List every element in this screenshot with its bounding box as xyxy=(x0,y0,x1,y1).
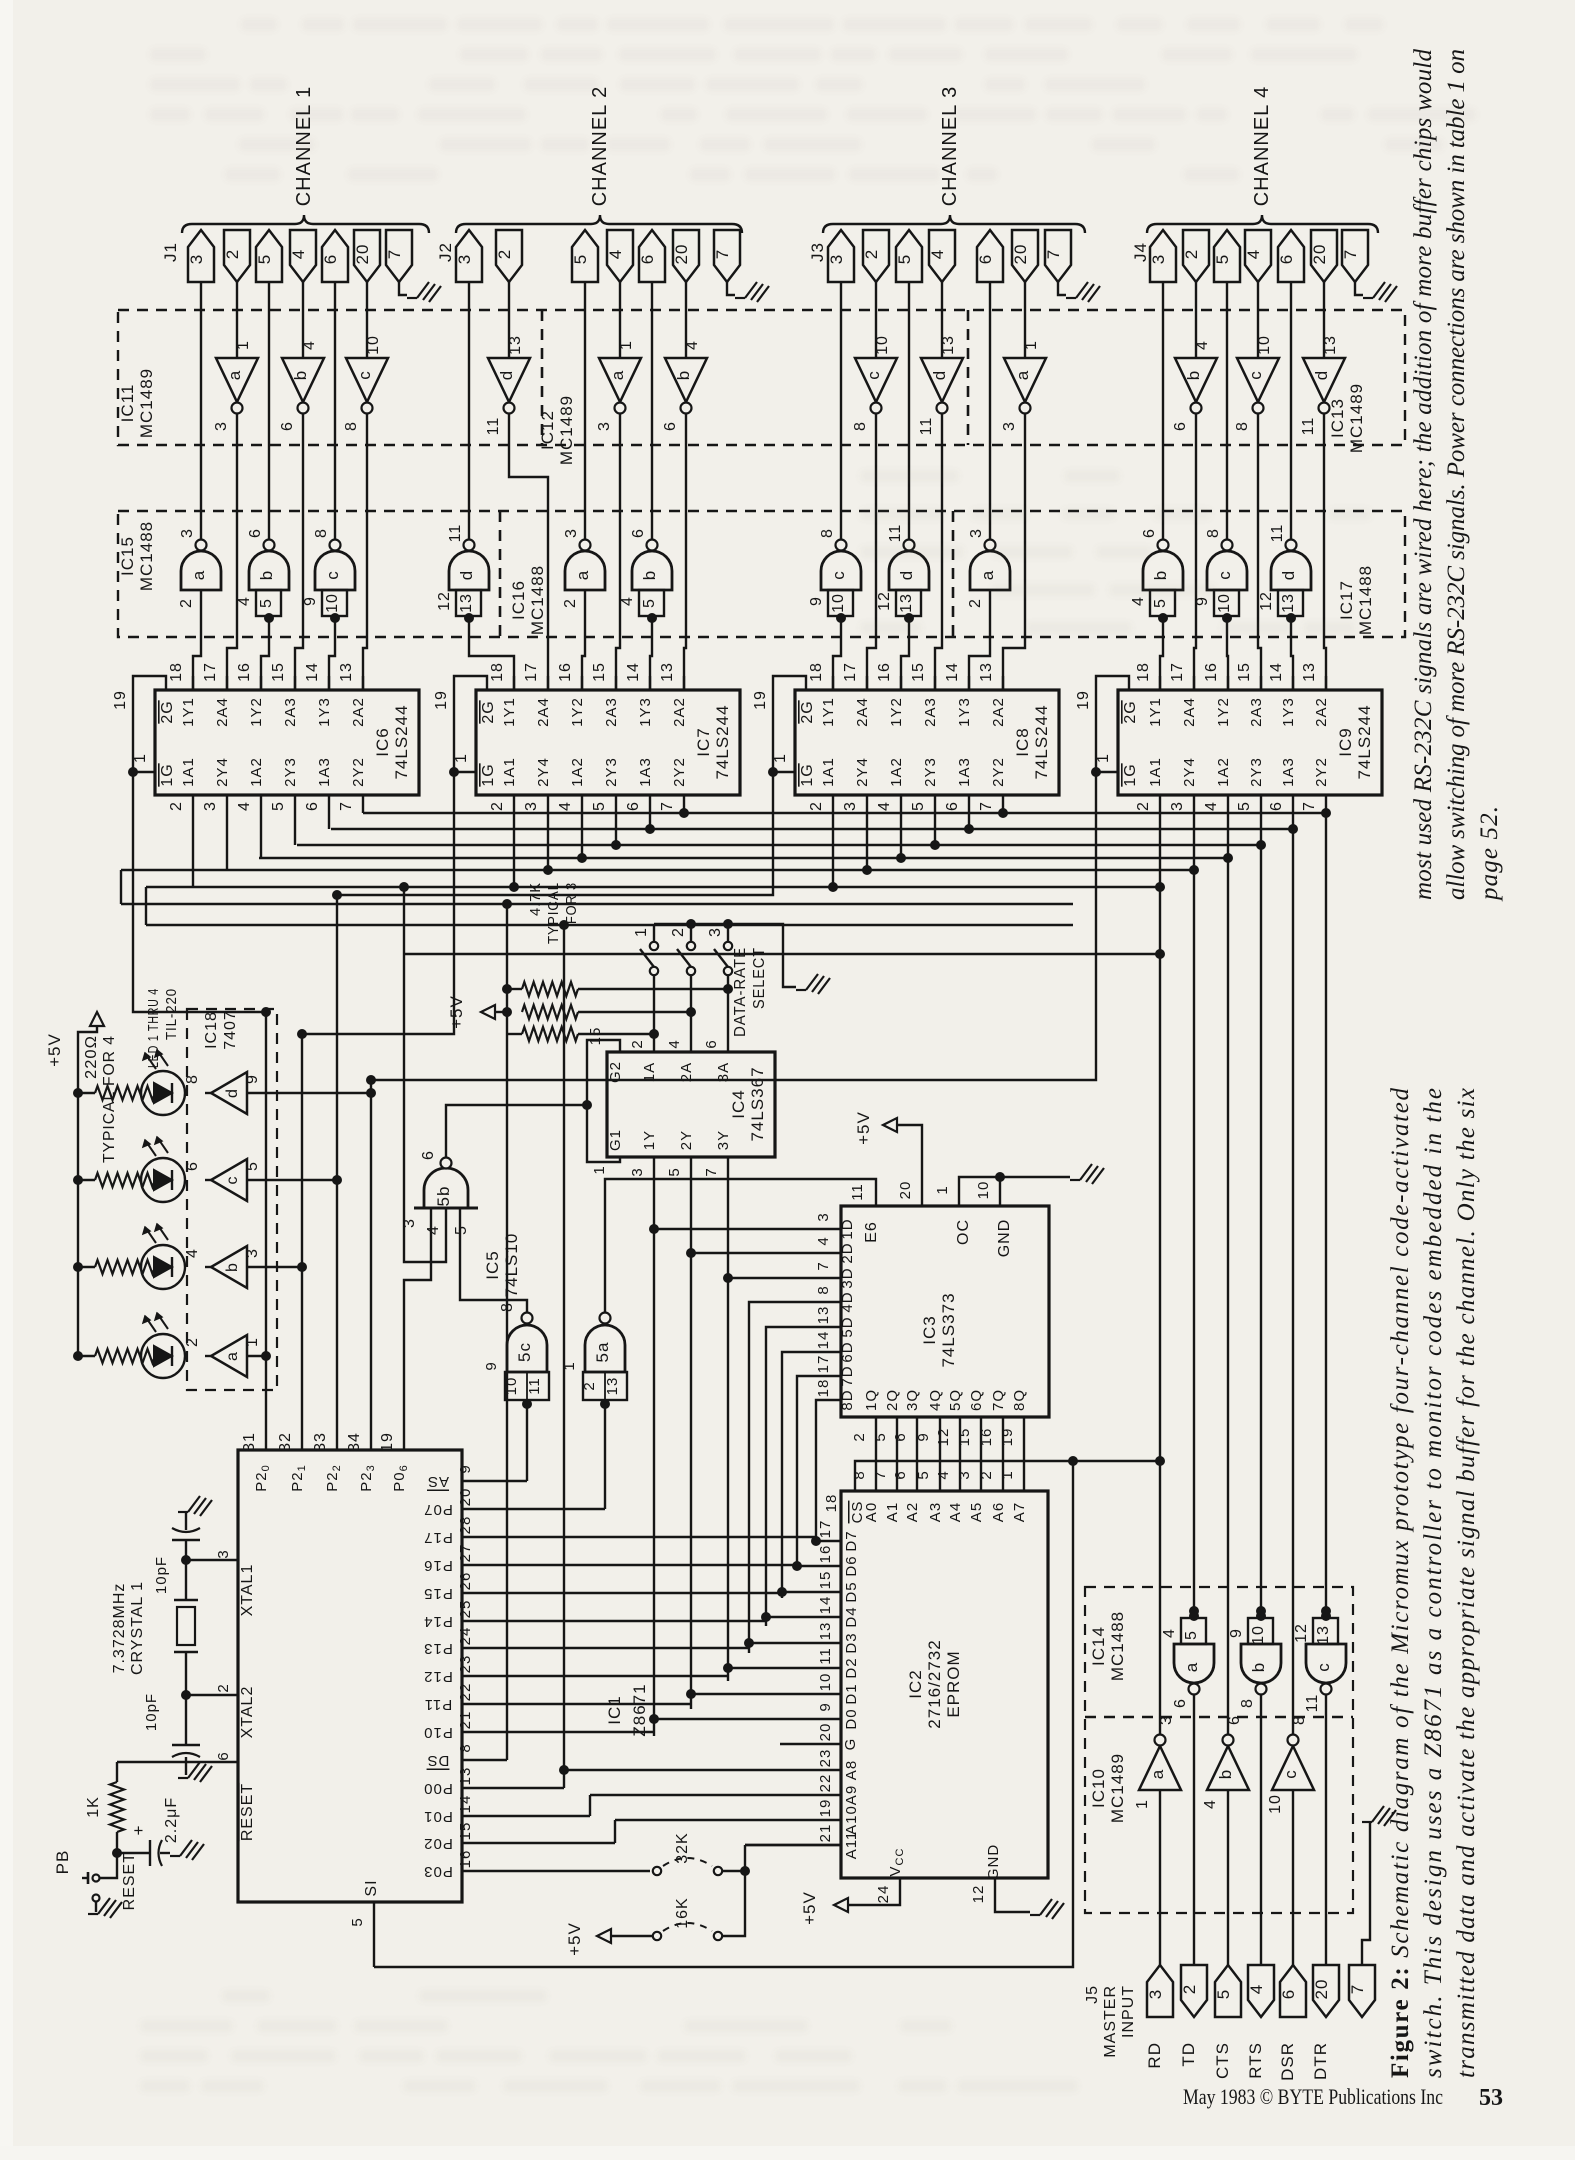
MC1489 receiver b (channel 4) xyxy=(1175,358,1217,402)
svg-text:8Q: 8Q xyxy=(1011,1389,1028,1411)
capacitor 10pF lower xyxy=(185,1695,187,1745)
wire 244 output to master column xyxy=(1227,795,1229,858)
J1 pin 3 xyxy=(188,230,214,282)
svg-text:10: 10 xyxy=(1267,1794,1284,1814)
MC1489 receiver b (channel 1) xyxy=(282,358,324,402)
svg-text:CTS: CTS xyxy=(1213,2042,1232,2079)
svg-text:5: 5 xyxy=(591,801,608,811)
svg-text:5c: 5c xyxy=(515,1342,534,1362)
svg-text:FOR 3: FOR 3 xyxy=(563,882,580,924)
svg-text:12: 12 xyxy=(876,591,893,611)
svg-text:1G: 1G xyxy=(799,763,816,786)
svg-text:1A1: 1A1 xyxy=(501,757,518,787)
svg-text:4: 4 xyxy=(666,1039,683,1048)
wire DS up xyxy=(506,1034,508,1760)
svg-text:MC1489: MC1489 xyxy=(1108,1753,1127,1823)
svg-text:5: 5 xyxy=(1213,254,1232,264)
svg-text:19: 19 xyxy=(752,690,769,710)
svg-text:20: 20 xyxy=(1310,244,1329,265)
ground J1 pin 7 xyxy=(399,282,407,295)
svg-text:a: a xyxy=(1148,1769,1167,1779)
svg-text:11: 11 xyxy=(887,524,904,543)
brace CHANNEL 4 xyxy=(1147,215,1378,233)
svg-text:2G: 2G xyxy=(1122,700,1139,723)
svg-text:32K: 32K xyxy=(674,1832,691,1863)
svg-text:a: a xyxy=(978,570,997,580)
J4 pin 7 xyxy=(1342,230,1368,282)
svg-text:20: 20 xyxy=(672,244,691,265)
svg-text:PB: PB xyxy=(53,1850,72,1875)
resistor 4.7K row3 xyxy=(522,1027,578,1041)
svg-text:11: 11 xyxy=(526,1377,543,1395)
svg-text:IC9: IC9 xyxy=(1336,727,1355,756)
svg-text:4Q: 4Q xyxy=(927,1389,944,1411)
IC8 pin 13 2A2 xyxy=(1002,676,1004,690)
svg-text:19: 19 xyxy=(817,1799,834,1818)
wire 244 output xyxy=(1002,795,1004,813)
svg-text:6: 6 xyxy=(630,528,647,538)
svg-text:+5V: +5V xyxy=(447,995,466,1029)
svg-text:16K: 16K xyxy=(674,1897,691,1928)
svg-text:16: 16 xyxy=(876,662,893,682)
IC3 pin 20 +5V xyxy=(897,1125,922,1206)
svg-text:3Y: 3Y xyxy=(715,1130,732,1150)
svg-text:22: 22 xyxy=(817,1774,834,1793)
svg-text:1Y2: 1Y2 xyxy=(569,697,586,727)
svg-text:19: 19 xyxy=(1075,690,1092,710)
svg-text:19: 19 xyxy=(999,1428,1016,1447)
svg-text:IC4: IC4 xyxy=(729,1089,748,1118)
J5 pin 5 CTS xyxy=(1215,1965,1241,2017)
svg-text:MC1489: MC1489 xyxy=(137,368,156,438)
MC1489 receiver a (channel 1) xyxy=(216,358,258,402)
ground J4 pin 7 xyxy=(1355,282,1363,295)
wire xyxy=(302,282,304,358)
IC3 OC GND to ground xyxy=(959,1177,1070,1206)
svg-text:1A2: 1A2 xyxy=(569,757,586,787)
svg-text:TYPICAL: TYPICAL xyxy=(545,882,562,944)
IC18 7407 buffer b xyxy=(211,1246,247,1288)
svg-text:9: 9 xyxy=(483,1361,500,1370)
MC1488 driver b (channel 2) xyxy=(632,551,672,590)
wire xyxy=(941,282,943,358)
svg-text:3: 3 xyxy=(179,528,196,538)
svg-text:P07: P07 xyxy=(423,1501,453,1518)
svg-text:6: 6 xyxy=(321,254,340,264)
svg-text:3: 3 xyxy=(815,1212,832,1221)
svg-text:5: 5 xyxy=(641,598,658,608)
svg-text:1: 1 xyxy=(132,753,149,763)
svg-text:MC1488: MC1488 xyxy=(137,521,156,591)
IC9 pin 18 1Y1 xyxy=(1159,676,1161,690)
svg-text:TD: TD xyxy=(1179,2042,1198,2067)
wire 244 output xyxy=(581,795,583,858)
bus line DTR xyxy=(146,886,1160,888)
svg-text:25: 25 xyxy=(457,1600,474,1619)
svg-text:20: 20 xyxy=(897,1181,914,1200)
svg-text:12: 12 xyxy=(436,591,453,611)
svg-text:6: 6 xyxy=(1172,421,1189,431)
svg-text:13: 13 xyxy=(338,662,355,682)
svg-text:XTAL1: XTAL1 xyxy=(239,1564,256,1617)
svg-text:7.3728MHz: 7.3728MHz xyxy=(111,1583,128,1674)
svg-text:14: 14 xyxy=(1268,662,1285,682)
svg-text:34: 34 xyxy=(346,1432,363,1452)
svg-text:allow switching of more RS-232: allow switching of more RS-232C signals.… xyxy=(1443,49,1470,900)
svg-text:15: 15 xyxy=(587,1027,604,1046)
svg-text:11: 11 xyxy=(849,1183,866,1201)
svg-text:17: 17 xyxy=(523,662,540,682)
svg-text:9: 9 xyxy=(244,1074,261,1084)
J5 pin 20 DTR xyxy=(1313,1965,1339,2017)
svg-text:13: 13 xyxy=(659,662,676,682)
svg-text:1A3: 1A3 xyxy=(316,757,333,787)
J4 pin 20 xyxy=(1311,230,1337,282)
svg-text:d: d xyxy=(1312,370,1331,380)
svg-text:8: 8 xyxy=(1234,421,1251,431)
svg-text:3A: 3A xyxy=(715,1062,732,1082)
svg-text:page 52.: page 52. xyxy=(1476,806,1503,902)
wire buffer output xyxy=(247,1266,302,1268)
svg-text:4: 4 xyxy=(815,1236,832,1245)
MC1488 driver d (channel 2) xyxy=(449,551,489,590)
svg-text:P13: P13 xyxy=(423,1640,453,1657)
IC6 pin 18 1Y1 xyxy=(192,676,194,690)
svg-text:5a: 5a xyxy=(593,1342,612,1363)
svg-text:2: 2 xyxy=(581,1381,598,1390)
J5 pin 3 RD xyxy=(1147,1965,1173,2017)
svg-text:4: 4 xyxy=(619,596,636,606)
svg-text:1: 1 xyxy=(772,753,789,763)
ground J2 pin 7 xyxy=(727,282,735,295)
svg-text:IC1: IC1 xyxy=(605,1695,624,1724)
IC8 pin 17 2A4 xyxy=(866,676,868,690)
IC7 pin 16 1Y2 xyxy=(581,676,583,690)
LED c TIL-220 xyxy=(141,1158,185,1202)
svg-text:IC5: IC5 xyxy=(483,1250,502,1279)
svg-text:14: 14 xyxy=(457,1795,474,1814)
svg-text:2: 2 xyxy=(629,1039,646,1048)
svg-text:2: 2 xyxy=(808,801,825,811)
svg-text:7: 7 xyxy=(1348,1984,1367,1994)
svg-text:20: 20 xyxy=(1312,1979,1331,2000)
svg-text:2Y4: 2Y4 xyxy=(535,757,552,787)
svg-text:74LS244: 74LS244 xyxy=(1032,704,1051,779)
svg-text:A2: A2 xyxy=(904,1502,921,1522)
svg-text:c: c xyxy=(1215,570,1234,580)
wire 5a to P07 xyxy=(604,1408,606,1509)
svg-text:8: 8 xyxy=(1291,1715,1308,1725)
wire xyxy=(685,282,687,358)
IC8 74LS244 buffer xyxy=(795,690,1059,795)
svg-text:8: 8 xyxy=(1239,1698,1256,1708)
svg-text:J1: J1 xyxy=(161,242,180,262)
wire 244 output xyxy=(362,795,364,813)
svg-text:1Y2: 1Y2 xyxy=(888,697,905,727)
svg-text:3: 3 xyxy=(401,1218,418,1228)
wire P23 column xyxy=(370,1080,372,1450)
svg-text:6: 6 xyxy=(1268,801,1285,811)
wire bus drop to 5b xyxy=(404,887,446,1262)
svg-text:2A2: 2A2 xyxy=(671,697,688,727)
svg-text:P14: P14 xyxy=(423,1613,453,1630)
svg-text:D1: D1 xyxy=(843,1683,860,1704)
svg-text:2Y4: 2Y4 xyxy=(214,757,231,787)
svg-text:2: 2 xyxy=(562,598,579,608)
wire xyxy=(1226,282,1228,540)
bus line 8 xyxy=(146,924,1073,926)
svg-text:23: 23 xyxy=(457,1655,474,1674)
svg-text:17: 17 xyxy=(202,662,219,682)
svg-text:10: 10 xyxy=(817,1673,834,1692)
svg-text:2Y2: 2Y2 xyxy=(350,757,367,787)
svg-text:16: 16 xyxy=(236,662,253,682)
svg-text:18: 18 xyxy=(489,662,506,682)
wire xyxy=(908,282,910,540)
svg-text:Figure 2: Schematic diagram of: Figure 2: Schematic diagram of the Micro… xyxy=(1387,1088,1414,2079)
pushbutton PB xyxy=(100,1853,117,1878)
svg-text:J3: J3 xyxy=(808,242,827,262)
J2 pin 7 xyxy=(714,230,740,282)
J3 pin 5 xyxy=(896,230,922,282)
svg-text:d: d xyxy=(497,370,516,380)
svg-text:b: b xyxy=(1184,370,1203,380)
svg-text:IC14: IC14 xyxy=(1089,1626,1108,1666)
svg-text:1: 1 xyxy=(453,753,470,763)
wire P06 column xyxy=(404,1225,431,1450)
J3 pin 20 xyxy=(1012,230,1038,282)
MC1489 receiver d (channel 4) xyxy=(1303,358,1345,402)
svg-text:16: 16 xyxy=(817,1545,834,1564)
svg-text:15: 15 xyxy=(1236,662,1253,682)
svg-text:5Q: 5Q xyxy=(947,1389,964,1411)
IC2 2716/2732 EPROM xyxy=(841,1491,1048,1878)
IC6 74LS244 buffer xyxy=(155,690,419,795)
svg-text:6: 6 xyxy=(944,801,961,811)
wire xyxy=(508,282,510,358)
J3 pin 3 xyxy=(828,230,854,282)
svg-text:12: 12 xyxy=(935,1428,952,1447)
svg-text:P03: P03 xyxy=(423,1863,453,1880)
svg-text:IC3: IC3 xyxy=(920,1315,939,1344)
svg-text:1: 1 xyxy=(999,1470,1016,1479)
wire 244 output xyxy=(866,795,868,870)
svg-text:1Y3: 1Y3 xyxy=(1280,697,1297,727)
svg-text:6: 6 xyxy=(976,254,995,264)
svg-text:IC16: IC16 xyxy=(509,580,528,620)
svg-text:220Ω: 220Ω xyxy=(83,1035,100,1079)
svg-text:4.7K: 4.7K xyxy=(527,882,544,916)
svg-text:IC15: IC15 xyxy=(118,536,137,576)
svg-text:3: 3 xyxy=(202,801,219,811)
svg-text:a: a xyxy=(608,370,627,380)
svg-text:1A2: 1A2 xyxy=(888,757,905,787)
wire switch to IC4 xyxy=(727,975,729,1052)
svg-text:2: 2 xyxy=(978,1470,995,1479)
svg-text:3: 3 xyxy=(563,528,580,538)
svg-text:G: G xyxy=(842,1738,859,1751)
svg-text:9: 9 xyxy=(457,1464,474,1473)
svg-text:6: 6 xyxy=(1226,1715,1243,1725)
J2 pin 2 xyxy=(496,230,522,282)
svg-text:2A4: 2A4 xyxy=(1181,697,1198,727)
svg-text:1Y2: 1Y2 xyxy=(1215,697,1232,727)
svg-text:2: 2 xyxy=(489,801,506,811)
wire 244 output xyxy=(832,795,834,887)
svg-text:P17: P17 xyxy=(423,1529,453,1546)
svg-text:a: a xyxy=(1182,1662,1201,1672)
wire buffer output xyxy=(247,1092,371,1094)
svg-text:13: 13 xyxy=(604,1377,621,1396)
svg-text:MC1489: MC1489 xyxy=(557,395,576,465)
data-rate switch 3 xyxy=(723,919,733,929)
svg-text:INPUT: INPUT xyxy=(1120,1985,1137,2038)
svg-text:A1: A1 xyxy=(884,1502,901,1522)
svg-text:D0: D0 xyxy=(843,1708,860,1729)
J2 pin 20 xyxy=(673,230,699,282)
IC7 pin 14 1Y3 xyxy=(649,676,651,690)
svg-text:4: 4 xyxy=(1244,249,1263,259)
svg-text:11: 11 xyxy=(817,1647,834,1665)
data-rate switch 1 xyxy=(653,924,655,941)
RESET circuit xyxy=(117,1761,238,1763)
svg-text:11: 11 xyxy=(485,417,502,436)
svg-text:4: 4 xyxy=(425,1225,442,1235)
svg-text:6Q: 6Q xyxy=(968,1389,985,1411)
J4 pin 5 xyxy=(1214,230,1240,282)
wire xyxy=(619,282,621,358)
IC9 pin 17 2A4 xyxy=(1193,676,1195,690)
svg-text:d: d xyxy=(457,570,476,580)
svg-text:11: 11 xyxy=(1269,524,1286,543)
svg-text:2Q: 2Q xyxy=(884,1389,901,1411)
svg-text:6: 6 xyxy=(215,1751,232,1760)
svg-text:E6: E6 xyxy=(863,1221,880,1243)
svg-text:CS: CS xyxy=(849,1501,866,1524)
svg-text:7407: 7407 xyxy=(222,1010,239,1050)
svg-text:15: 15 xyxy=(956,1428,973,1447)
svg-text:1: 1 xyxy=(591,1165,608,1174)
IC2 CS wire to RD line xyxy=(855,1461,1160,1491)
wire buffer output xyxy=(247,1355,266,1357)
IC11 MC1489 dashed box xyxy=(118,310,1405,445)
svg-text:P00: P00 xyxy=(423,1780,453,1797)
svg-text:2Y3: 2Y3 xyxy=(282,757,299,787)
svg-text:7: 7 xyxy=(978,801,995,811)
svg-text:18: 18 xyxy=(808,662,825,682)
svg-text:c: c xyxy=(323,570,342,580)
wire LED to buffer xyxy=(205,1266,211,1268)
svg-text:DSR: DSR xyxy=(1278,2042,1297,2081)
svg-text:MC1488: MC1488 xyxy=(528,565,547,635)
svg-text:3: 3 xyxy=(1169,801,1186,811)
svg-text:RESET: RESET xyxy=(121,1852,138,1910)
J3 pin 7 xyxy=(1045,230,1071,282)
IC3 74LS373 latch xyxy=(841,1206,1049,1417)
svg-text:d: d xyxy=(224,1088,241,1098)
IC18 7407 buffer c xyxy=(211,1159,247,1201)
svg-text:2: 2 xyxy=(495,249,514,259)
svg-text:transmitted data and activate: transmitted data and activate the approp… xyxy=(1453,1088,1480,2078)
svg-text:24: 24 xyxy=(875,1885,892,1904)
J5 pin 4 RTS xyxy=(1248,1965,1274,2017)
wire IC8 enable to P22 xyxy=(337,772,773,895)
svg-text:1: 1 xyxy=(633,927,650,937)
wire 244 output to master column xyxy=(1159,795,1161,887)
svg-text:c: c xyxy=(1246,370,1265,380)
svg-text:1G: 1G xyxy=(1122,763,1139,786)
svg-text:b: b xyxy=(1151,570,1170,580)
svg-text:2A: 2A xyxy=(678,1062,695,1082)
IC14 driver b xyxy=(1241,1644,1281,1683)
svg-text:74LS373: 74LS373 xyxy=(939,1292,958,1367)
IC6 pin 16 1Y2 xyxy=(260,676,262,690)
svg-text:4: 4 xyxy=(289,249,308,259)
svg-text:12: 12 xyxy=(970,1885,987,1904)
svg-text:5: 5 xyxy=(895,254,914,264)
svg-text:74LS244: 74LS244 xyxy=(713,704,732,779)
svg-text:8: 8 xyxy=(815,1285,832,1294)
bus step wires xyxy=(120,870,122,904)
svg-text:D2: D2 xyxy=(843,1657,860,1678)
svg-text:9: 9 xyxy=(817,1702,834,1711)
svg-text:3: 3 xyxy=(629,1167,646,1176)
svg-text:74LS367: 74LS367 xyxy=(748,1066,767,1141)
svg-text:3: 3 xyxy=(968,528,985,538)
svg-text:1A1: 1A1 xyxy=(180,757,197,787)
svg-text:3: 3 xyxy=(215,1549,232,1558)
MC1489 receiver d (channel 2) xyxy=(488,358,530,402)
IC18 7407 buffer d xyxy=(211,1072,247,1114)
svg-text:P01: P01 xyxy=(423,1808,453,1825)
wire xyxy=(651,282,653,540)
svg-text:2G: 2G xyxy=(159,700,176,723)
wire P21 column xyxy=(301,1034,303,1450)
svg-text:4: 4 xyxy=(236,801,253,811)
IC9 74LS244 buffer xyxy=(1118,690,1382,795)
svg-text:2: 2 xyxy=(168,801,185,811)
MC1488 driver d (channel 3) xyxy=(889,551,929,590)
svg-text:May 1983 © BYTE Publications I: May 1983 © BYTE Publications Inc xyxy=(1183,2084,1443,2109)
MC1488 driver b (channel 1) xyxy=(249,551,289,590)
wire P01-A9 link xyxy=(589,1795,591,1816)
IC8 pin 15 2A3 xyxy=(934,676,936,690)
svg-text:6: 6 xyxy=(420,1150,437,1160)
IC7 pin 13 2A2 xyxy=(683,676,685,690)
J4 pin 6 xyxy=(1278,230,1304,282)
MC1489 receiver a (channel 2) xyxy=(599,358,641,402)
MC1488 driver c (channel 3) xyxy=(821,551,861,590)
svg-text:2: 2 xyxy=(1180,1984,1199,1994)
MC1488 driver d (channel 4) xyxy=(1271,551,1311,590)
svg-text:17: 17 xyxy=(815,1355,832,1374)
svg-text:J5: J5 xyxy=(1084,1985,1101,2004)
svg-text:D5: D5 xyxy=(843,1581,860,1602)
svg-text:2: 2 xyxy=(178,598,195,608)
svg-text:3: 3 xyxy=(523,801,540,811)
svg-text:b: b xyxy=(291,370,310,380)
LED b TIL-220 xyxy=(141,1245,185,1289)
IC6 pin 13 2A2 xyxy=(362,676,364,690)
wire data bus D0 xyxy=(653,1229,655,1736)
IC14 driver c xyxy=(1306,1644,1346,1683)
IC9 pin 15 2A3 xyxy=(1260,676,1262,690)
wire 244 output to master column xyxy=(1193,795,1195,870)
J2 pin 5 xyxy=(572,230,598,282)
wire xyxy=(1257,282,1259,358)
svg-text:4: 4 xyxy=(557,801,574,811)
svg-text:6: 6 xyxy=(638,254,657,264)
